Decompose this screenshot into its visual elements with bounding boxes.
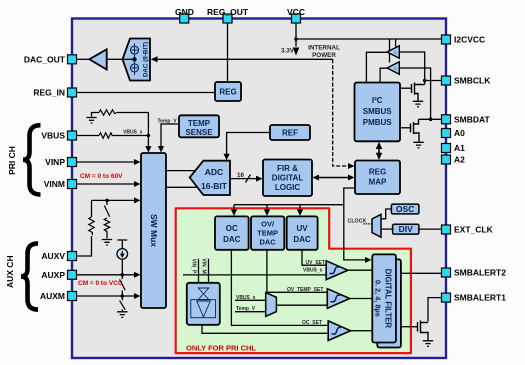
wire buffer U3 supply drop [389, 39, 391, 63]
svg-text:VINP: VINP [45, 157, 65, 167]
svg-text:VIN_M: VIN_M [200, 258, 206, 273]
buffer U3 (SMBDAT) [387, 62, 399, 74]
svg-text:AUXM: AUXM [40, 291, 65, 301]
sense amplifier block [187, 283, 220, 325]
svg-text:MAP: MAP [369, 178, 387, 187]
svg-text:Temp_V: Temp_V [236, 306, 256, 312]
pin VINM [68, 180, 77, 189]
svg-text:A0: A0 [454, 128, 465, 138]
ONLY FOR PRI CHL region (green, red border) [176, 208, 411, 353]
DAC current source symbols [131, 44, 139, 76]
wire UV DAC feed arrow stem [299, 205, 301, 213]
comparator K1 [326, 261, 348, 280]
wire OSC to clock mux [381, 209, 391, 219]
register map block [355, 161, 400, 195]
svg-text:A1: A1 [454, 143, 465, 153]
wire VBUS_s node to SW Mux [147, 136, 149, 150]
arrow I2C to REG MAP down head [376, 153, 383, 160]
wire SW Mux to ADC lower [166, 186, 197, 188]
oscillator OSC [391, 204, 419, 214]
wire AUXV riser through resistor [77, 200, 92, 256]
wire CLOCK dotted [364, 223, 373, 225]
wire internal power dashed feed to REG MAP [333, 59, 351, 166]
arrow ADC bus into FIR [256, 176, 263, 182]
wire comparator K2 output [350, 298, 373, 300]
wire mux M2 input Temp_V [235, 311, 266, 313]
wire mux M2 input VBUS_s [235, 299, 266, 301]
ground (Q2 source) [413, 142, 423, 148]
brace AUX CH [21, 243, 38, 309]
svg-text:I²C: I²C [372, 96, 383, 105]
wire VIN_M tap [208, 259, 210, 283]
pin VBUS [68, 131, 77, 140]
schmitt glyph K1 [330, 267, 340, 274]
svg-text:REG_OUT: REG_OUT [207, 7, 249, 17]
wire switch S3 stubs [121, 296, 123, 311]
svg-text:DIGITAL: DIGITAL [272, 174, 304, 183]
svg-text:UV_SET: UV_SET [306, 260, 325, 266]
wire OV DAC feed arrow stem [266, 205, 268, 213]
wire I2CVCC rail [296, 38, 442, 40]
wire VIN_P tap [198, 259, 200, 283]
wire DIV to clock mux [381, 228, 393, 230]
schmitt glyph K2 [331, 295, 341, 302]
wire REG_OUT pin to REG [227, 22, 229, 82]
pin SMBCLK [442, 76, 451, 85]
svg-text:OV/: OV/ [261, 220, 275, 229]
wire VINP to SW Mux [77, 161, 138, 163]
svg-text:DIGITAL FILTER: DIGITAL FILTER [384, 269, 393, 329]
resistor R3 (AUXV riser) [89, 217, 94, 235]
pin I2CVCC [442, 35, 451, 44]
arrow REG MAP to FIR left head [313, 175, 320, 181]
FIR & digital logic block [263, 160, 312, 197]
arrow VINM into SW Mux [134, 181, 141, 187]
wire I2C to Q1 gate [400, 87, 412, 89]
svg-text:OC_SET: OC_SET [302, 320, 322, 326]
digital filter block [372, 254, 396, 342]
wire OC DAC feed arrow stem [233, 205, 235, 213]
wire 3.3V rail to DAC [152, 58, 333, 60]
arrow Temp_V into SW Mux [158, 146, 164, 152]
pin DAC_OUT [68, 55, 77, 64]
pin A0 [442, 129, 451, 138]
svg-text:OC: OC [226, 224, 238, 233]
reference REF [270, 125, 310, 140]
junction AUXM node [121, 294, 125, 298]
chip body (main boundary) [72, 19, 446, 359]
switch S3 blade [120, 301, 126, 310]
svg-text:ONLY FOR PRI CHL: ONLY FOR PRI CHL [186, 344, 256, 353]
svg-text:CLOCK: CLOCK [348, 219, 367, 225]
DAC (8-BIT) pentagon [123, 39, 151, 81]
svg-text:SENSE: SENSE [185, 128, 213, 137]
pin GND [180, 14, 189, 23]
svg-text:AUXP: AUXP [41, 270, 65, 280]
ground (VBUS bias) [86, 118, 96, 124]
wire OV_TEMP_SET [267, 250, 327, 292]
arrow into UV DAC [297, 210, 303, 216]
temp sensor block [179, 115, 219, 137]
arrow REF into ADC [224, 154, 230, 160]
svg-text:REG_IN: REG_IN [33, 88, 65, 98]
mux M2 (VBUS_s/Temp_V) [266, 293, 277, 317]
sense amp inner symbols [191, 288, 216, 318]
arrow into OV/TEMP DAC [264, 210, 270, 216]
svg-text:REG: REG [219, 88, 236, 97]
pin AUXP [68, 270, 77, 279]
svg-text:VBUS_s: VBUS_s [123, 130, 143, 136]
switch S1 blade [104, 206, 109, 217]
wire comparator K3 output [351, 330, 373, 332]
svg-text:TEMP: TEMP [257, 229, 278, 238]
brace PRI CH [23, 125, 41, 194]
wire SMBCLK to pin [425, 80, 442, 82]
wire DIV to EXT_CLK pin [419, 228, 442, 230]
wire current source I1 leads [117, 240, 127, 275]
wire OC_SET [231, 250, 328, 326]
comparator K3 [328, 321, 350, 341]
wire REG MAP to DAC thresholds [234, 188, 355, 205]
wire AUXP to SW Mux [77, 274, 138, 276]
wire SW Mux to ADC upper [166, 170, 195, 172]
svg-text:DAC: DAC [259, 238, 276, 247]
wire VBUS_s to comparator K1 [183, 274, 326, 276]
arrow REG MAP into filter [365, 257, 372, 263]
wire DAC dot to output vertex [124, 58, 135, 60]
ground (AUXM switch) [117, 312, 127, 318]
transistor Q3 (SMBALERT1 open drain) [418, 321, 429, 341]
wire Q3 drain to SMBALERT1 pin [428, 298, 442, 322]
wire VBUS to sense node [77, 135, 149, 137]
svg-text:GND: GND [175, 7, 194, 17]
svg-text:Temp_V: Temp_V [158, 119, 178, 125]
svg-text:LOGIC: LOGIC [275, 183, 301, 192]
wire buffer U2 output to I2C block [366, 52, 387, 82]
arrow FIR to REG MAP right head [348, 175, 355, 181]
svg-text:CM = 0 to 60V: CM = 0 to 60V [80, 173, 123, 180]
ADC 16-BIT pentagon [190, 161, 230, 195]
wire I2C to Q2 gate [400, 127, 411, 129]
svg-text:OSC: OSC [396, 204, 414, 214]
svg-text:POWER: POWER [312, 52, 336, 59]
wire VINM to SW Mux [77, 183, 138, 185]
schmitt glyph K3 [332, 328, 342, 335]
wire bias resistor branch [92, 113, 149, 136]
svg-text:DAC: DAC [223, 235, 241, 244]
switch S2 blade [120, 279, 126, 290]
svg-text:SW Mux: SW Mux [149, 214, 159, 247]
wire comparator K1 output [348, 269, 373, 271]
resistor R2 (VBUS sense) [99, 133, 112, 138]
wire switch S2 stubs [121, 275, 123, 296]
ground (Q3 source) [423, 341, 433, 347]
svg-text:VIN_P: VIN_P [190, 259, 196, 274]
pin EXT_CLK [442, 225, 451, 234]
pin VCC [292, 14, 301, 23]
svg-text:I2CVCC: I2CVCC [454, 35, 485, 45]
resistor R1 (bias to ground) [99, 110, 116, 115]
junction VCC rail [294, 37, 298, 41]
svg-text:VINM: VINM [44, 179, 65, 189]
junction SMBCLK [423, 79, 427, 83]
arrow into DAC [151, 56, 158, 62]
junction SMBDAT [429, 118, 433, 122]
SW Mux block [141, 153, 166, 308]
digital filter shadow block [377, 259, 401, 347]
wire filter to Q3 gate [396, 326, 418, 328]
svg-text:SMBALERT2: SMBALERT2 [454, 268, 506, 278]
pin VINP [68, 158, 77, 167]
wire sense amp output to comparator K3 [202, 325, 328, 334]
svg-text:DAC: DAC [293, 235, 311, 244]
buffer U2 (SMBCLK) [387, 46, 399, 58]
wire I2C to REG MAP double arrow shaft [378, 144, 380, 159]
svg-text:VBUS_s: VBUS_s [303, 267, 323, 273]
pin SMBALERT1 [442, 293, 451, 302]
svg-text:FIR &: FIR & [277, 164, 298, 173]
DAC summing junction dot [132, 57, 136, 61]
svg-text:A2: A2 [454, 155, 465, 165]
svg-text:OV_TEMP_SET: OV_TEMP_SET [287, 287, 323, 293]
svg-text:SMBCLK: SMBCLK [454, 76, 491, 86]
svg-text:SMBALERT1: SMBALERT1 [454, 293, 506, 303]
arrow dashed feed into REG MAP [348, 163, 355, 169]
current source I1 [117, 249, 128, 260]
wire AUXM to SW Mux [77, 295, 138, 297]
wire mux M2 output to comparator K2 [276, 304, 327, 306]
svg-text:ADC: ADC [205, 167, 223, 177]
wire buffer U3 output to I2C block [380, 68, 387, 82]
wire buffer U3 input from SMBDAT [399, 68, 430, 119]
svg-text:3.3V: 3.3V [281, 48, 295, 55]
transistor Q2 (SMBDAT open drain) [411, 119, 420, 141]
junction VBUS_s node [147, 134, 151, 138]
svg-text:0. 2, 4, 8µs: 0. 2, 4, 8µs [374, 280, 383, 317]
svg-text:UV: UV [297, 224, 309, 233]
divider DIV [393, 224, 419, 234]
arrow VBUS_s into SW Mux [145, 146, 151, 152]
svg-text:DAC (8-BIT): DAC (8-BIT) [142, 42, 149, 77]
wire FIR to REG MAP double arrow shaft [316, 177, 351, 179]
arrow AUXM into SW Mux [134, 293, 141, 299]
pin REG_IN [68, 88, 77, 97]
arrow REG MAP to I2C up head [376, 142, 383, 149]
svg-text:REG: REG [369, 168, 386, 177]
wire ADC 16-bit bus to FIR [230, 178, 259, 180]
junction aux sense node [105, 199, 109, 203]
arrow AUXP into SW Mux [134, 272, 141, 278]
transistor Q1 (SMBCLK open drain) [412, 83, 425, 101]
svg-text:PRI CH: PRI CH [7, 146, 17, 175]
resistor R4 (switch branch) [104, 218, 109, 233]
wire switch S1 branch [106, 200, 108, 238]
svg-text:16-BIT: 16-BIT [201, 181, 228, 191]
pin A2 [442, 155, 451, 164]
svg-text:AUXV: AUXV [41, 251, 65, 261]
svg-text:EXT_CLK: EXT_CLK [454, 225, 494, 235]
pin SMBDAT [442, 115, 451, 124]
svg-text:DAC_OUT: DAC_OUT [24, 55, 66, 65]
OV/TEMP DAC block [251, 216, 284, 249]
arrow into OC DAC [231, 210, 237, 216]
svg-text:SMBDAT: SMBDAT [454, 114, 491, 124]
clock mux M1 [372, 214, 381, 237]
svg-text:TEMP: TEMP [188, 119, 211, 128]
wire VCC down to junction [295, 22, 297, 39]
svg-text:INTERNAL: INTERNAL [308, 45, 340, 52]
UV DAC block [287, 216, 318, 249]
svg-text:PMBUS: PMBUS [363, 118, 393, 127]
wire Temp_V to SW Mux [161, 124, 179, 149]
I2C SMBUS PMBUS block [355, 83, 401, 142]
wire aux sense node to SW Mux [92, 199, 138, 201]
wire filter to SMBALERT2 pin [396, 272, 442, 274]
pin AUXV [68, 252, 77, 261]
svg-text:VCC: VCC [287, 7, 305, 17]
svg-text:AUX CH: AUX CH [5, 255, 15, 288]
pin SMBALERT2 [442, 268, 451, 277]
wire buffer U2 input from SMBCLK [399, 52, 424, 85]
svg-text:VBUS: VBUS [41, 131, 65, 141]
junction AUXP node [121, 273, 125, 277]
svg-text:16: 16 [237, 172, 245, 179]
regulator REG [215, 82, 241, 101]
wire 3.3V internal power stub [295, 39, 297, 47]
ground (Q1 source) [413, 101, 423, 107]
wire REG MAP to digital filter [344, 205, 367, 260]
wire buffer A1 to DAC [107, 58, 123, 60]
wire buffer U2 supply drop [395, 39, 397, 47]
svg-text:REF: REF [282, 129, 298, 138]
svg-text:VBUS_s: VBUS_s [236, 295, 256, 301]
wire SMBDAT to pin [419, 118, 442, 120]
pin REG_OUT [223, 14, 232, 23]
svg-text:CM = 0 to VCC: CM = 0 to VCC [78, 280, 123, 287]
wire REG_IN pin to REG [77, 92, 216, 94]
buffer A1 (DAC_OUT) [89, 49, 106, 69]
arrow VINP into SW Mux [134, 159, 141, 165]
pin AUXM [68, 292, 77, 301]
arrow 3.3V internal power [293, 48, 299, 56]
OC DAC block [215, 216, 249, 249]
wire UV_SET [302, 250, 326, 265]
wire DAC_OUT pin to buffer A1 [77, 58, 90, 60]
pin A1 [442, 144, 451, 153]
comparator K2 [327, 289, 349, 309]
svg-text:DIV: DIV [399, 224, 414, 234]
svg-text:SMBUS: SMBUS [363, 107, 393, 116]
ground (switch branch) [102, 240, 112, 246]
wire REF to ADC [227, 133, 270, 158]
arrow aux node into SW Mux [134, 197, 141, 203]
wire bus slash [246, 175, 251, 183]
